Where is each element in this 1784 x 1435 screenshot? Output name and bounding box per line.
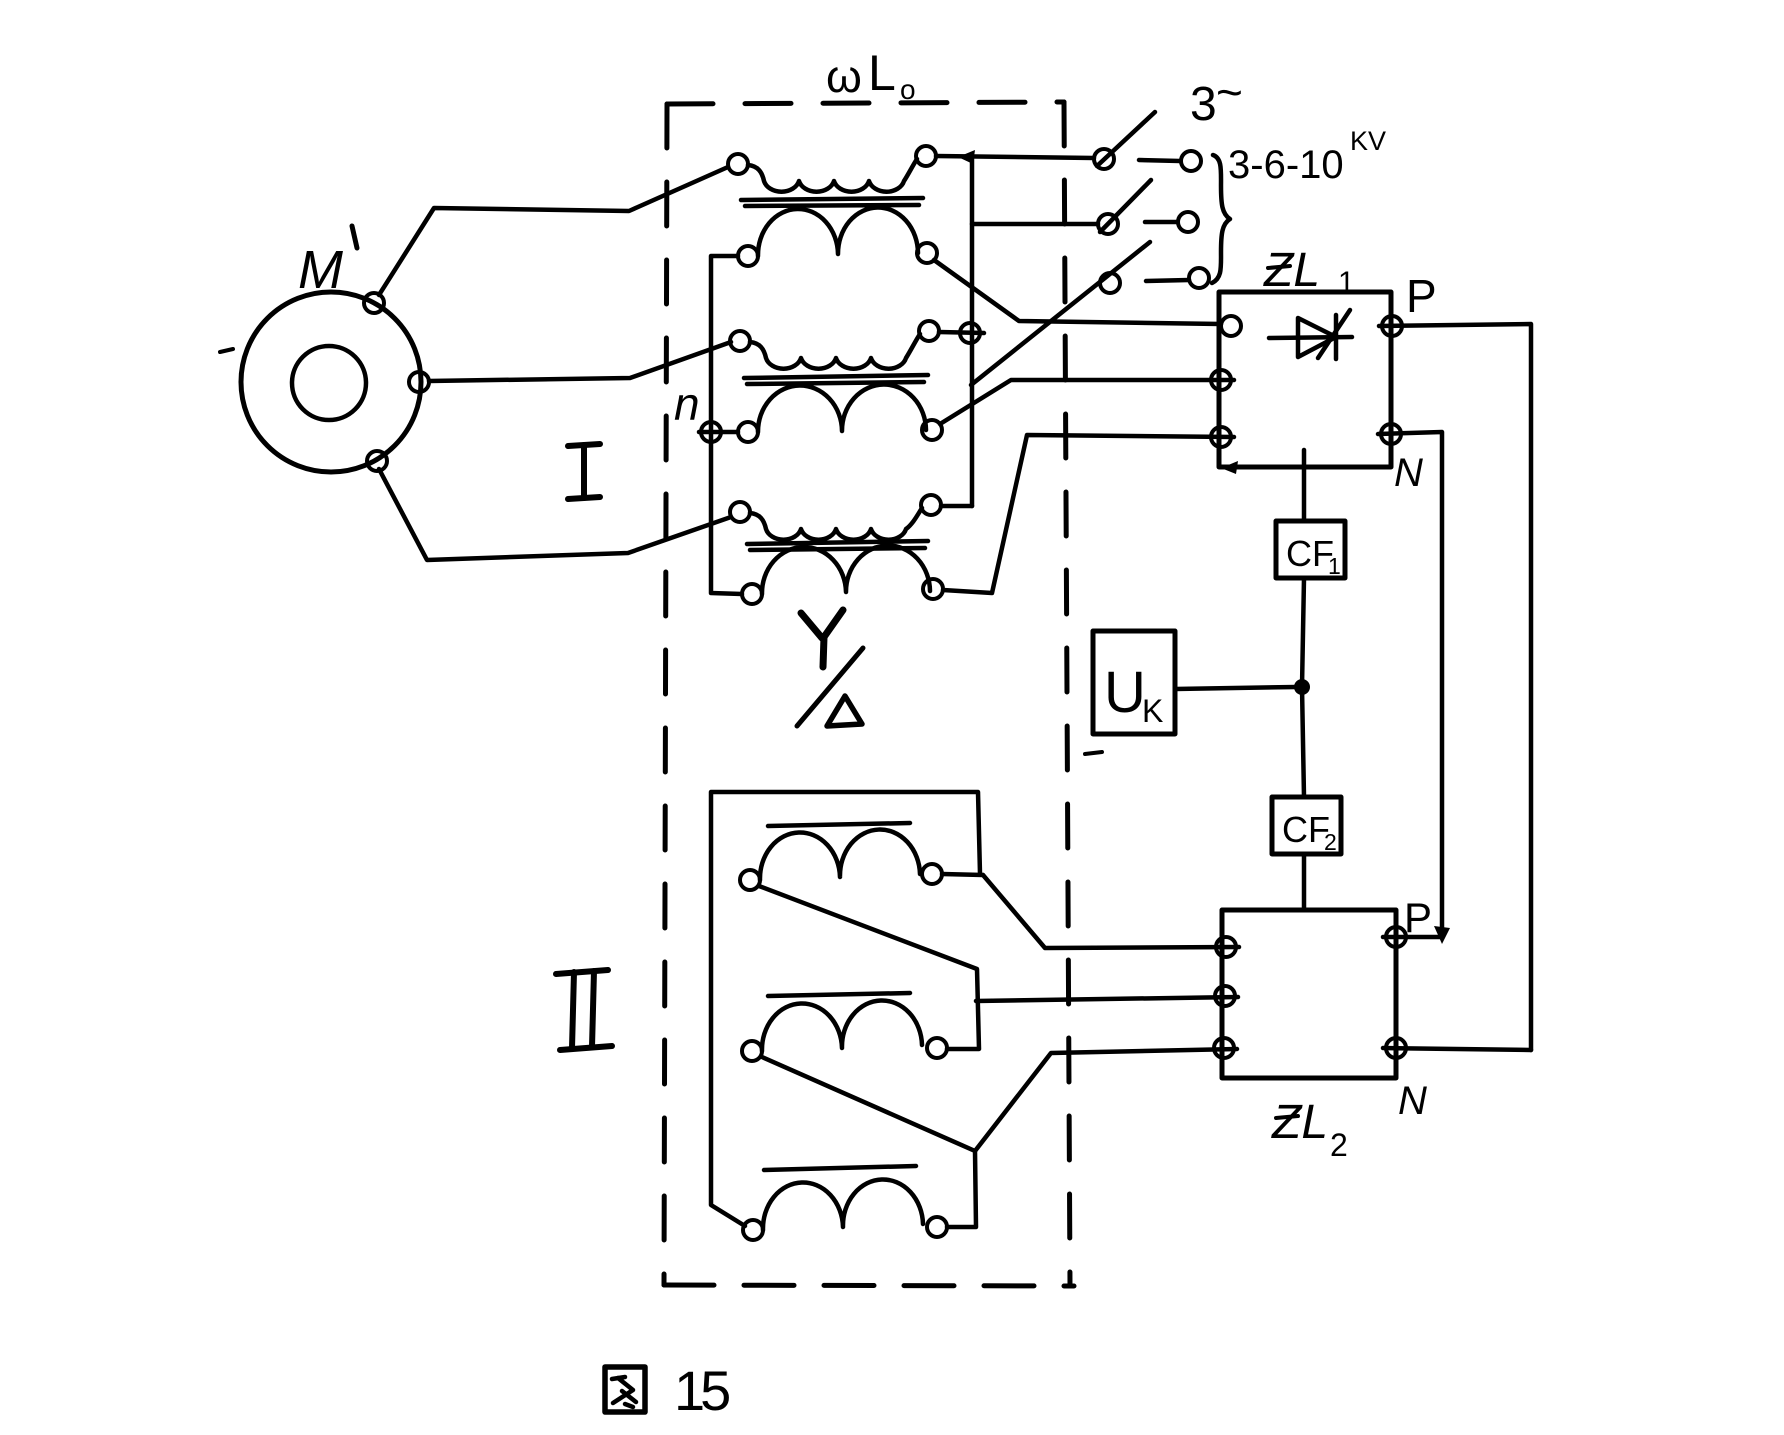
winding W23 bar xyxy=(764,1166,916,1170)
switch S3 xyxy=(1100,273,1120,293)
brace xyxy=(1212,155,1230,283)
wire ZL1 N to inner bus xyxy=(1378,432,1442,935)
gate unit CF2 xyxy=(1272,797,1341,854)
transformer T1 winding L1b xyxy=(738,246,758,266)
winding W22 xyxy=(742,1041,762,1061)
thyristor symbol xyxy=(1269,337,1352,338)
dashed boundary box of winding groups xyxy=(667,102,1064,104)
label ZL1 xyxy=(1263,244,1355,299)
wire bus to switch S3 blade xyxy=(971,242,1150,385)
wire ZL1 to CF1 xyxy=(1302,450,1307,521)
winding W21 xyxy=(740,870,760,890)
svg-text:1: 1 xyxy=(1338,266,1355,299)
caption xyxy=(605,1367,645,1412)
ZL2 terminal N xyxy=(1386,1038,1406,1058)
motor M' xyxy=(241,292,421,472)
svg-text:15: 15 xyxy=(674,1359,729,1422)
wire group II to ZL2 input 2 xyxy=(976,997,1238,1001)
svg-text:ZL: ZL xyxy=(1263,244,1320,297)
rectifier ZL2 xyxy=(1222,910,1396,1078)
transformer T2 core xyxy=(744,375,928,378)
tick below UK xyxy=(1085,752,1102,754)
transformer T1 core xyxy=(741,198,923,200)
motor terminal A xyxy=(364,293,384,313)
ZL1 input terminal 1 xyxy=(1221,316,1241,336)
svg-text:2: 2 xyxy=(1324,829,1337,855)
svg-text:1: 1 xyxy=(1328,553,1341,579)
neutral bus n xyxy=(711,256,742,594)
label ZL2 xyxy=(1271,1096,1348,1163)
motor terminal C xyxy=(367,451,387,471)
wire UK to junction xyxy=(1175,687,1296,689)
motor terminal B xyxy=(409,372,429,392)
wire W21 right to bus xyxy=(942,874,983,875)
svg-text:K: K xyxy=(1142,693,1163,729)
svg-text:2: 2 xyxy=(1330,1127,1348,1163)
svg-text:ZL: ZL xyxy=(1271,1096,1328,1149)
svg-text:n: n xyxy=(674,378,700,430)
label wL0 xyxy=(826,45,916,105)
wire ZL1 P to outer bus xyxy=(1379,324,1531,1050)
transformer T2 winding L2a xyxy=(730,331,750,351)
wire junction to CF2 xyxy=(1302,687,1304,797)
svg-text:P: P xyxy=(1406,270,1437,322)
label 3~ xyxy=(1190,66,1243,131)
ZL1 terminal P xyxy=(1382,316,1402,336)
ZL1 input terminal 2 xyxy=(1211,370,1231,390)
svg-text:o: o xyxy=(900,74,916,105)
wire L1b to ZL1 input 1 xyxy=(934,260,1221,324)
star bus of group I xyxy=(970,158,975,506)
svg-text:KV: KV xyxy=(1350,126,1386,156)
label slash xyxy=(797,648,863,726)
label Y xyxy=(801,610,843,667)
stray tick xyxy=(220,349,233,352)
gate unit CF1 xyxy=(1276,521,1345,578)
switch S1 xyxy=(1094,149,1114,169)
svg-text:M: M xyxy=(298,240,343,300)
wire group II to ZL2 input 1 xyxy=(983,875,1239,948)
svg-text:3: 3 xyxy=(1190,78,1217,131)
svg-text:~: ~ xyxy=(1216,66,1243,118)
ZL1 terminal N xyxy=(1381,424,1401,444)
ZL2 input terminal 2 xyxy=(1215,986,1235,1006)
winding W21 bar xyxy=(768,823,910,826)
wire group II to ZL2 input 3 xyxy=(975,1049,1237,1151)
wire bus to switch S2 xyxy=(972,222,1098,227)
ZL2 input terminal 3 xyxy=(1214,1038,1234,1058)
label 3-6-10KV xyxy=(1228,126,1386,187)
winding W22 bar xyxy=(768,993,910,996)
svg-text:CF: CF xyxy=(1282,809,1330,850)
svg-text:P: P xyxy=(1404,894,1432,941)
label I (group I) xyxy=(568,444,600,499)
switch S2 xyxy=(1098,214,1118,234)
svg-text:N: N xyxy=(1398,1079,1427,1123)
wire L3b to ZL1 input 3 xyxy=(943,435,1234,593)
ZL1 bottom arrowhead xyxy=(1221,461,1238,474)
junction arrowhead xyxy=(958,150,975,164)
label II (group II) xyxy=(556,970,612,1050)
arrowhead at bus end xyxy=(1434,926,1450,944)
group II bus top xyxy=(711,792,980,1226)
wire CF1 to junction xyxy=(1302,578,1304,687)
ZL2 terminal P xyxy=(1386,927,1406,947)
label delta xyxy=(827,696,862,726)
wire ZL2 N to outer bus xyxy=(1383,1048,1531,1050)
wire L2b to ZL1 input 2 xyxy=(940,380,1234,424)
rectifier ZL1 xyxy=(1219,292,1391,467)
link W22 left to W23 right xyxy=(762,1057,976,1227)
bus terminal to L2a xyxy=(960,323,980,343)
winding W23 xyxy=(743,1220,763,1240)
svg-text:3-6-10: 3-6-10 xyxy=(1228,143,1344,187)
control unit UK xyxy=(1093,631,1175,734)
svg-text:N: N xyxy=(1394,451,1423,495)
wire ZL2 P up xyxy=(1383,935,1442,940)
svg-text:ω: ω xyxy=(826,50,862,102)
transformer T3 core xyxy=(747,541,928,544)
transformer T2 winding L2b xyxy=(738,422,758,442)
transformer T1 winding L1a xyxy=(728,154,748,174)
wire motor B to winding L2a xyxy=(429,342,731,381)
svg-text:L: L xyxy=(868,45,896,101)
wire CF2 to ZL2 xyxy=(1302,854,1307,910)
wire motor A to winding L1a xyxy=(379,167,728,295)
wire motor C to winding L3a xyxy=(379,469,731,560)
wire bus to L3a xyxy=(941,504,972,509)
wire L1a to switch S1 xyxy=(936,156,1094,158)
transformer T3 winding L3a xyxy=(730,502,750,522)
transformer T3 winding L3b xyxy=(742,584,762,604)
link W21 left to W22 right xyxy=(759,886,979,1049)
ZL2 input terminal 1 xyxy=(1216,937,1236,957)
neutral bus terminal xyxy=(701,422,721,442)
ZL1 input terminal 3 xyxy=(1211,427,1231,447)
junction node xyxy=(1294,679,1310,695)
svg-text:U: U xyxy=(1104,660,1146,725)
svg-text:CF: CF xyxy=(1286,533,1334,574)
